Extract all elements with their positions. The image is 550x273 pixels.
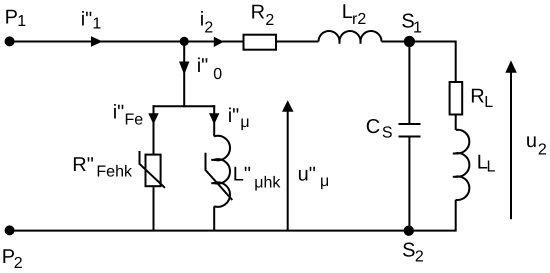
- label u"u: [298, 164, 330, 190]
- slash of R"Fehk: [140, 151, 165, 188]
- svg-text:Fehk: Fehk: [96, 164, 133, 181]
- capacitor CS plate bottom: [399, 136, 421, 138]
- label L"uhk: [233, 164, 282, 192]
- svg-text:μ: μ: [240, 114, 249, 131]
- node S2: [404, 226, 414, 236]
- svg-text:i": i": [81, 9, 93, 31]
- svg-text:2: 2: [415, 249, 424, 266]
- wire right branch upper: [213, 105, 215, 136]
- terminal P1: [5, 36, 15, 46]
- svg-text:2: 2: [538, 141, 547, 158]
- svg-text:r2: r2: [352, 11, 366, 28]
- wire left branch lower: [153, 187, 155, 230]
- arrow i"0: [179, 62, 189, 75]
- label i"Fe: [113, 102, 144, 129]
- svg-text:R": R": [72, 154, 94, 176]
- arrow line u"u: [287, 111, 289, 231]
- svg-text:2: 2: [14, 255, 23, 272]
- label S2: [402, 239, 424, 265]
- svg-text:R: R: [470, 86, 484, 108]
- label S1: [401, 10, 422, 36]
- node S1: [404, 36, 415, 47]
- label u2: [526, 130, 547, 158]
- wire junction drop to tee bar: [183, 42, 185, 108]
- svg-text:0: 0: [213, 66, 222, 83]
- inductor L"uhk: [211, 136, 230, 207]
- svg-text:C: C: [366, 116, 380, 138]
- svg-text:1: 1: [413, 20, 422, 37]
- svg-text:L: L: [484, 94, 493, 111]
- svg-text:u: u: [526, 130, 537, 152]
- resistor R"Fehk: [146, 155, 161, 187]
- arrow i"1: [91, 36, 103, 46]
- svg-text:L: L: [487, 159, 496, 176]
- svg-text:μhk: μhk: [254, 174, 281, 191]
- arrow i2: [214, 37, 224, 47]
- svg-text:u": u": [298, 164, 316, 186]
- wire left branch upper: [153, 105, 155, 154]
- svg-text:P: P: [5, 7, 18, 29]
- svg-text:μ: μ: [320, 173, 329, 190]
- label i"1: [81, 9, 102, 33]
- arrow i"Fe: [148, 113, 158, 124]
- label Lr2: [342, 1, 367, 28]
- arrow line u2: [510, 72, 512, 219]
- label R2: [251, 2, 275, 30]
- label i2: [200, 9, 214, 37]
- svg-text:S: S: [402, 239, 415, 261]
- svg-text:1: 1: [17, 13, 26, 30]
- node junction: [180, 37, 189, 46]
- arrowhead u"u: [282, 100, 294, 112]
- wire CS down to S2: [408, 137, 410, 231]
- wire right branch lower: [213, 206, 215, 230]
- wire top from P1 to R2: [10, 41, 243, 43]
- arrowhead u2: [505, 60, 517, 72]
- resistor R2: [244, 35, 277, 50]
- svg-text:S: S: [382, 125, 393, 142]
- inductor Lr2: [319, 31, 382, 44]
- wire S1 down to CS: [408, 42, 410, 125]
- arrow i"u: [209, 113, 219, 124]
- wire Lr2 to S1 and corner down to RL: [382, 42, 456, 83]
- svg-text:i": i": [197, 55, 209, 77]
- label LL: [477, 152, 496, 176]
- resistor RL: [450, 82, 463, 115]
- label P2: [2, 246, 23, 272]
- svg-text:2: 2: [265, 12, 274, 29]
- label R"Fehk: [72, 154, 133, 181]
- label RL: [470, 86, 493, 112]
- svg-text:1: 1: [92, 16, 101, 33]
- label i"u: [228, 105, 250, 131]
- slash of L"uhk: [206, 153, 233, 200]
- capacitor CS plate top: [399, 123, 421, 125]
- wire RL to LL: [455, 115, 457, 130]
- label CS: [366, 116, 393, 142]
- label P1: [5, 7, 27, 31]
- label i"0: [197, 55, 223, 83]
- svg-text:R: R: [251, 2, 265, 24]
- svg-text:2: 2: [204, 20, 213, 37]
- svg-text:i": i": [113, 102, 125, 124]
- wire R2 to Lr2: [277, 41, 319, 43]
- wire tee bar: [153, 105, 216, 107]
- terminal P2: [5, 225, 15, 235]
- wire bottom from P2 with corner up to LL: [10, 200, 456, 231]
- svg-text:i": i": [228, 105, 240, 127]
- svg-text:Fe: Fe: [125, 111, 144, 128]
- inductor LL: [453, 130, 470, 200]
- svg-text:L": L": [233, 164, 251, 186]
